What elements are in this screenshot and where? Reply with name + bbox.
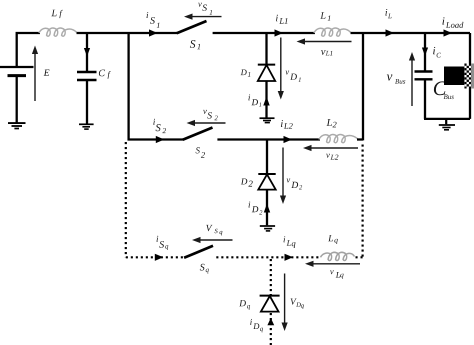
battery E top plate <box>0 66 34 68</box>
arrow iS2 on branch-2 wire <box>156 136 165 143</box>
arrow E (source voltage) <box>32 46 38 102</box>
wire: branch-q dotted from switch to right column <box>216 256 319 258</box>
wire: branch-q dotted from column to switch Sq <box>126 256 184 258</box>
label iL2 <box>281 120 283 127</box>
label vL2 <box>326 154 330 158</box>
label iD1 <box>248 94 250 100</box>
label Cf <box>99 70 105 77</box>
label vD1 <box>285 71 289 75</box>
inductor L2 coil <box>319 135 358 143</box>
label iSq <box>157 236 159 242</box>
arrow vD2 <box>280 148 286 205</box>
label iC <box>433 47 435 54</box>
label VDq <box>291 299 297 305</box>
label S2 <box>196 147 200 153</box>
label iS2 <box>153 119 155 125</box>
inductor L1 coil <box>314 28 351 36</box>
arrow iC down on CBus lead <box>422 48 428 57</box>
ground on output bottom rail <box>439 119 455 130</box>
label Dq <box>239 300 246 306</box>
label CBus <box>434 81 447 95</box>
label iS1 <box>147 12 149 18</box>
arrow iS1 on branch-1 wire <box>149 29 158 36</box>
switch S2 blade <box>183 128 213 140</box>
wire: branch-2 from switch to L2 <box>217 138 320 140</box>
label iL <box>385 9 387 16</box>
wire: right edge vertical <box>469 33 471 119</box>
wire: left input bus vertical <box>127 33 129 140</box>
label vS2 <box>203 110 207 114</box>
wire: Cf branch from top rail <box>86 33 88 72</box>
arrow vD1 <box>278 38 284 100</box>
wire: output bottom rail <box>424 118 470 120</box>
ground below Cf <box>79 124 94 129</box>
wire: D2 lower lead <box>266 190 268 226</box>
arrow iLoad on output rail <box>444 29 453 36</box>
wire: branch-1 from switch to L1 <box>213 32 315 34</box>
label VSq <box>206 225 212 231</box>
label Lf <box>51 10 56 17</box>
arrow iD2 up on D2 lead <box>264 204 270 213</box>
wire: top rail from L1 to right edge <box>351 32 471 34</box>
wire: CBus branch upper lead <box>424 33 426 71</box>
capacitor CBus bottom plate <box>415 78 433 80</box>
label vBus <box>387 75 393 81</box>
wire: D1 lower lead <box>265 81 267 118</box>
wire: top rail from Lf to switch S1 <box>77 32 178 34</box>
arrow vLq <box>305 261 360 267</box>
switch Sq blade <box>184 246 213 258</box>
inductor Lf coil <box>39 28 77 36</box>
label D1 <box>241 70 247 76</box>
arrow iL on output rail <box>386 29 395 36</box>
label iLq <box>284 236 286 242</box>
battery E bottom plate <box>8 74 27 77</box>
arrow vL2 <box>303 145 358 151</box>
diode D2 cathode bar <box>258 173 275 175</box>
capacitor Cf top plate <box>77 71 97 73</box>
wire: source top-left corner to Lf <box>17 33 40 66</box>
wire: D1 branch upper lead <box>265 33 267 65</box>
wire: Cf lower lead <box>86 81 88 124</box>
arrow iD1 up on D1 lead <box>263 97 269 106</box>
wire: Dq dotted upper lead <box>270 259 272 295</box>
label vLq <box>330 270 334 274</box>
wire: L2 to right bus corner <box>357 138 363 140</box>
wire: battery negative lead <box>16 77 18 123</box>
wire: branch-2 from bus to switch S2 <box>128 138 184 140</box>
diode Dq cathode bar <box>260 295 280 297</box>
diode D1 cathode bar <box>258 64 275 66</box>
arrow iSq on branch-q wire <box>155 254 164 261</box>
load block checkered strip <box>464 64 474 89</box>
label L2 <box>327 119 332 126</box>
label S1 <box>190 40 196 48</box>
label iDq <box>250 319 252 325</box>
arrow vL1 <box>297 38 352 44</box>
arrow vS2 <box>187 120 226 126</box>
arrow iDq up on Dq lead <box>267 318 274 325</box>
capacitor CBus top plate <box>415 70 433 72</box>
arrow iL1 on branch-1 wire <box>275 29 284 36</box>
label iLoad <box>442 17 444 24</box>
label E <box>44 70 50 76</box>
wire: right dotted continuation column <box>362 145 364 259</box>
arrow iL2 on branch-2 wire <box>284 136 293 143</box>
label iL1 <box>276 15 278 22</box>
wire: right output bus vertical <box>362 33 364 140</box>
capacitor Cf bottom plate <box>77 79 97 81</box>
load block (solid) <box>444 67 465 86</box>
inductor Lq coil <box>321 252 355 260</box>
ground below D1 <box>260 118 275 122</box>
arrow VDq <box>282 274 288 332</box>
label Sq <box>200 264 205 271</box>
arrow iLq on branch-q wire <box>285 254 294 261</box>
ground below battery <box>8 123 26 128</box>
label L1 <box>320 12 325 18</box>
label iD2 <box>249 202 251 208</box>
diode D2 triangle <box>258 174 275 189</box>
arrow vBus <box>409 52 415 106</box>
label vL1 <box>321 50 326 55</box>
diode D1 triangle <box>258 65 275 81</box>
wire: Dq dotted lower lead to bottom edge <box>270 313 272 345</box>
wire: D2 branch upper lead <box>266 140 268 174</box>
arrow vS1 <box>184 14 222 20</box>
label vS1 <box>198 3 202 7</box>
arrow down on Cf branch <box>84 48 90 57</box>
ground below D2 <box>260 226 275 231</box>
label D2 <box>241 179 248 185</box>
arrow VSq <box>192 237 233 243</box>
wire: CBus lower lead <box>424 80 426 119</box>
switch S1 blade <box>177 21 207 33</box>
diode Dq triangle <box>261 296 279 312</box>
label Lq <box>328 235 333 241</box>
label vD2 <box>287 179 291 183</box>
wire: left dotted continuation column <box>125 142 127 257</box>
